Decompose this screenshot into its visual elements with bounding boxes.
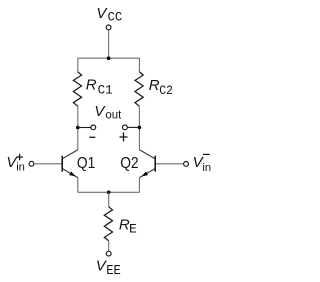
- svg-text:EE: EE: [106, 264, 121, 279]
- wire VCC lead: [108, 30, 110, 58]
- svg-text:in: in: [16, 162, 25, 174]
- wire top rail: [78, 58, 140, 72]
- wire to RE: [108, 192, 110, 207]
- resistor RC2: [135, 72, 143, 106]
- wire output stub right: [127, 126, 139, 128]
- terminal output minus: [91, 125, 96, 130]
- resistor RC1: [73, 72, 81, 106]
- VCC terminal: [106, 25, 111, 30]
- svg-text:CC: CC: [108, 10, 123, 25]
- wire RE to VEE terminal: [108, 241, 110, 251]
- junction emitter node: [107, 191, 111, 195]
- svg-text:Q1: Q1: [77, 155, 95, 172]
- svg-text:C2: C2: [159, 83, 173, 98]
- wire Vin+ to Q1 base: [34, 163, 62, 165]
- wire emitter rail: [78, 191, 140, 193]
- terminal Vin+: [29, 161, 34, 166]
- label plus sign: [120, 133, 128, 142]
- junction left output node: [76, 126, 80, 130]
- wire right collector branch: [138, 106, 140, 150]
- label minus sign: [89, 136, 95, 138]
- svg-text:R: R: [149, 77, 160, 94]
- wire Q2 base to Vin-: [156, 163, 184, 165]
- svg-text:C1: C1: [98, 83, 113, 98]
- wire output stub left: [78, 127, 91, 129]
- transistor Q1: [62, 150, 78, 178]
- svg-text:Q2: Q2: [120, 155, 138, 172]
- transistor Q2: [139, 150, 155, 178]
- svg-text:E: E: [129, 222, 137, 237]
- svg-text:out: out: [105, 110, 122, 122]
- junction right output node: [138, 126, 142, 130]
- wire Q2 emitter lead: [138, 178, 140, 193]
- terminal output plus: [123, 125, 128, 130]
- svg-text:R: R: [86, 77, 97, 94]
- terminal VEE: [106, 251, 111, 256]
- wire left collector branch: [77, 106, 79, 150]
- svg-text:in: in: [202, 162, 211, 174]
- terminal Vin-: [184, 162, 189, 167]
- junction top node: [107, 56, 111, 60]
- wire Q1 emitter lead: [77, 178, 79, 193]
- resistor RE: [104, 207, 112, 241]
